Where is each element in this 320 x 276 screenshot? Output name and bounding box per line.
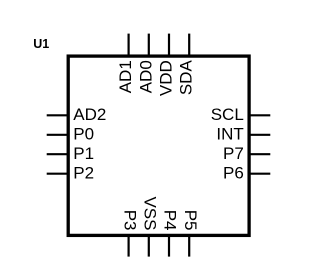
svg-text:AD0: AD0 <box>136 60 155 93</box>
svg-text:P3: P3 <box>120 210 139 231</box>
pin VDD (top, wire) <box>168 34 170 57</box>
svg-text:SDA: SDA <box>177 60 196 96</box>
svg-text:AD2: AD2 <box>73 105 106 124</box>
pin P5 (bottom, wire) <box>188 235 190 256</box>
pin P6 (right, wire) <box>249 173 270 175</box>
svg-text:P5: P5 <box>181 210 200 231</box>
pin P4 (bottom, wire) <box>168 235 170 256</box>
svg-text:VDD: VDD <box>157 60 176 96</box>
svg-text:P1: P1 <box>73 144 94 163</box>
svg-text:P6: P6 <box>223 164 244 183</box>
svg-text:INT: INT <box>216 125 243 144</box>
pin SDA (top, wire) <box>188 34 190 57</box>
pin AD0 (top, wire) <box>148 34 150 57</box>
svg-text:P2: P2 <box>73 164 94 183</box>
pin AD2 (left, wire) <box>47 114 69 116</box>
pin P1 (left, wire) <box>47 153 69 155</box>
pin SCL (right, wire) <box>249 114 270 116</box>
svg-text:P0: P0 <box>73 125 94 144</box>
IC body U1 <box>68 56 249 235</box>
pin VSS (bottom, wire) <box>148 235 150 256</box>
pin P3 (bottom, wire) <box>128 235 130 256</box>
pin P0 (left, wire) <box>47 134 69 136</box>
svg-text:VSS: VSS <box>141 196 160 230</box>
svg-text:P4: P4 <box>161 210 180 231</box>
pin P7 (right, wire) <box>249 153 270 155</box>
pin AD1 (top, wire) <box>128 34 130 57</box>
svg-text:U1: U1 <box>33 37 49 51</box>
svg-text:P7: P7 <box>223 144 244 163</box>
pin INT (right, wire) <box>249 134 270 136</box>
pin P2 (left, wire) <box>47 173 69 175</box>
svg-text:AD1: AD1 <box>116 60 135 93</box>
svg-text:SCL: SCL <box>211 105 244 124</box>
